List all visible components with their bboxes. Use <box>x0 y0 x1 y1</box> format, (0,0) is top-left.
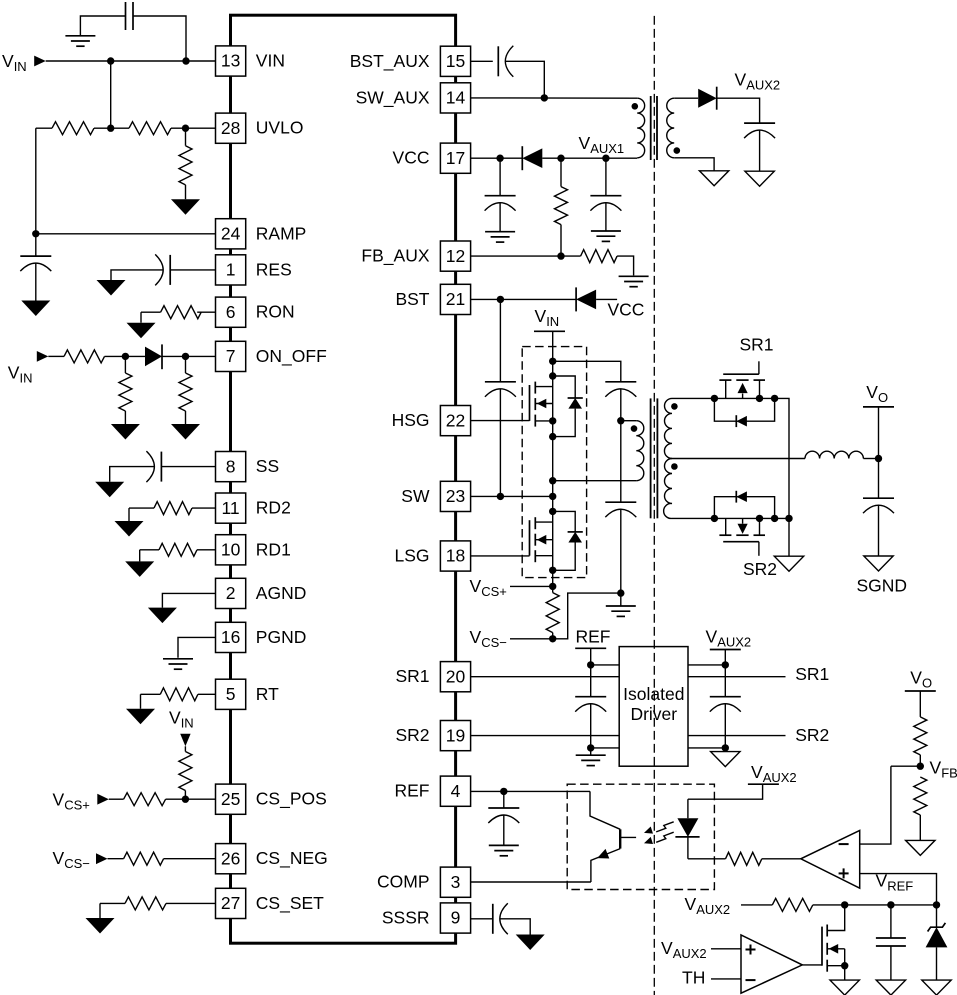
node dot VCS+ tap <box>549 583 556 590</box>
pin 8 SS <box>216 452 246 482</box>
Q3 source stub <box>827 965 845 967</box>
wire C-SS to ground elbow <box>110 467 155 482</box>
pin 24 RAMP <box>216 219 246 249</box>
wire diode to cap VAUX2 <box>717 98 760 123</box>
wire RD1 elbow <box>140 549 159 551</box>
wire R-UVLO3 to ground <box>185 185 187 199</box>
node dot sec-top-C <box>771 395 778 402</box>
Q2 body arrow stub <box>535 539 552 541</box>
polarity dot T1 secondary lower <box>671 463 678 470</box>
VAUX2 supply bar (opto) <box>748 783 779 785</box>
aux transformer T2 core <box>650 96 652 160</box>
SR2 body arrow stub <box>742 518 744 523</box>
svg-text:VAUX2: VAUX2 <box>751 762 797 785</box>
dashed box - optocoupler U3 <box>567 784 714 889</box>
wire secondary top rail <box>672 398 789 518</box>
SR1 gate bar <box>723 373 759 375</box>
ground triangle (open) secondary <box>774 556 803 571</box>
node dot VREF-C <box>933 901 940 908</box>
ground triangle (open) T2 return <box>699 171 728 186</box>
wire Q2 diode bottom to source <box>553 543 576 571</box>
resistor R-T <box>160 688 198 701</box>
svg-text:SGND: SGND <box>857 575 908 595</box>
capacitor C-REF <box>488 807 519 809</box>
ground triangle RAMP <box>21 301 50 317</box>
pin 6 RON <box>216 297 246 327</box>
opto transistor base stub <box>620 836 636 838</box>
node dot Q1 source-diode <box>549 433 556 440</box>
U4 plus sign <box>839 872 849 874</box>
node dot Q1 source <box>549 417 556 424</box>
pin 7 ON_OFF <box>216 341 246 371</box>
input arrow ON_OFF <box>37 351 49 362</box>
svg-text:VAUX1: VAUX1 <box>579 133 625 156</box>
node dot VREF-B <box>887 901 894 908</box>
svg-text:RAMP: RAMP <box>256 223 307 243</box>
svg-text:2: 2 <box>226 583 236 603</box>
wire to pin 26 <box>164 858 216 860</box>
svg-text:SR1: SR1 <box>395 666 429 686</box>
wire left rail UVLO to RAMP <box>35 128 37 234</box>
svg-text:5: 5 <box>226 684 236 704</box>
svg-text:BST_AUX: BST_AUX <box>350 51 430 72</box>
wire RD1 down <box>139 550 141 562</box>
opto emitter arrow <box>597 849 609 859</box>
node dot VCS- tap <box>549 635 556 642</box>
ground triangle SS <box>95 482 124 498</box>
inductor L1 output <box>805 451 863 458</box>
pin 3 COMP <box>440 867 470 897</box>
node dot VIN-A <box>107 57 114 64</box>
pin 1 RES <box>216 255 246 285</box>
pin 13 VIN <box>216 46 246 76</box>
wire driver SR2 output <box>688 735 786 737</box>
wire bridge VIN to HSG cap <box>553 361 621 382</box>
node dot Q2 source-diode <box>549 567 556 574</box>
pin 20 SR1 <box>440 662 470 692</box>
node dot SW_AUX <box>541 94 548 101</box>
ground (earth) FB_AUX <box>619 275 649 277</box>
wire gnd node to driver right <box>688 747 725 749</box>
wire resistor to CS_POS node <box>184 791 186 800</box>
pin 27 CS_SET <box>216 888 246 918</box>
wire secondary bottom rail <box>672 517 789 519</box>
capacitor C-RAMP <box>20 255 51 257</box>
ground (earth) C-VCC <box>485 231 515 233</box>
wire pin 12 FB_AUX <box>471 255 581 257</box>
wire center tap to inductor <box>672 458 805 460</box>
wire HSG pin 22 to Q1 gate <box>471 420 530 422</box>
wire VO bar down <box>878 407 880 459</box>
resistor R-FB-TOP <box>914 717 927 755</box>
wire cap to ground <box>80 16 125 36</box>
polarity dot T2 secondary <box>674 147 681 154</box>
wire RD2 elbow <box>129 507 154 509</box>
capacitor C-VAUX1 <box>590 195 621 197</box>
svg-text:20: 20 <box>446 666 466 686</box>
wire RT down <box>140 694 142 708</box>
resistor R-VREF <box>772 898 813 911</box>
transformer T1 secondary upper winding <box>664 398 672 458</box>
U5 minus sign <box>746 979 756 981</box>
ground triangle (open) Q3 <box>830 980 859 995</box>
node dot VFB <box>917 763 924 770</box>
wire opto emitter to pin 3 COMP <box>471 881 591 883</box>
wire resistor to ground <box>919 815 921 840</box>
wire VAUX2 to U5 plus <box>711 948 741 950</box>
pin 21 BST <box>440 284 470 314</box>
node dot REF <box>500 788 507 795</box>
node dot sec-bot-C <box>771 515 778 522</box>
svg-text:VO: VO <box>866 382 888 405</box>
opto light arrow 1 <box>656 822 674 832</box>
svg-text:BST: BST <box>395 289 429 309</box>
SR1 channel <box>719 379 731 381</box>
wire gnd node to earth <box>590 748 592 755</box>
svg-text:COMP: COMP <box>377 872 430 892</box>
svg-text:AGND: AGND <box>256 583 307 603</box>
svg-text:22: 22 <box>446 410 465 430</box>
svg-text:VIN: VIN <box>256 51 285 71</box>
transistor SR1 gate lead <box>758 361 760 374</box>
svg-text:LSG: LSG <box>394 546 429 566</box>
U5 plus sign <box>746 949 756 951</box>
wire diode to pin 7 <box>162 355 216 357</box>
svg-text:SR2: SR2 <box>795 725 829 745</box>
node dot VCC-B <box>557 155 564 162</box>
svg-text:7: 7 <box>226 346 236 366</box>
wire zener to ground <box>936 947 938 980</box>
resistor R-FBAUX-TOP <box>555 187 568 225</box>
wire RON down <box>140 312 142 323</box>
VIN supply arrow down <box>180 734 190 747</box>
resistor R-ON <box>161 306 202 319</box>
svg-text:VCS−: VCS− <box>470 627 507 650</box>
wire primary node down (crossover) <box>620 421 622 503</box>
wire pin 21 BST <box>471 298 576 300</box>
opto LED <box>677 818 698 837</box>
transistor Q2 low-side FET gate bar <box>529 520 531 556</box>
opto light arrow 2 <box>656 832 674 842</box>
wire arrow to resistor <box>108 858 124 860</box>
wire C-HSG to primary node <box>620 389 622 421</box>
svg-text:28: 28 <box>221 118 240 138</box>
wire VCS- node to primary ground <box>553 593 621 639</box>
capacitor C-BSTAUX <box>497 46 499 76</box>
wire VREF-C to zener <box>936 905 938 927</box>
VO supply bar <box>863 406 894 408</box>
ground triangle (open) zener <box>922 980 951 995</box>
pin 18 LSG <box>440 541 470 571</box>
svg-text:REF: REF <box>576 626 611 646</box>
wire resistor to FB_AUX node <box>560 225 562 257</box>
svg-text:VAUX2: VAUX2 <box>661 938 707 961</box>
wire driver SR1 output <box>688 676 786 678</box>
node dot sec-bot-A <box>711 515 718 522</box>
SR1 body diode <box>735 415 737 427</box>
wire LED to resistor <box>688 858 726 860</box>
ground triangle UVLO <box>171 199 200 215</box>
svg-text:8: 8 <box>226 456 236 476</box>
resistor R-SENSE <box>546 593 559 633</box>
wire Q1 diode bottom to source <box>553 409 576 437</box>
pin 19 SR2 <box>440 721 470 751</box>
node dot UVLO-B <box>182 125 189 132</box>
wire arrow to resistor <box>184 746 186 751</box>
ground triangle AGND <box>148 608 177 624</box>
wire VAUX2 node down to cap <box>724 665 726 697</box>
svg-text:CS_POS: CS_POS <box>256 789 327 810</box>
wire to pin 25 <box>166 798 216 800</box>
aux transformer T2 primary winding <box>637 98 644 158</box>
wire cap to gnd node <box>590 704 592 748</box>
node dot low FET drain <box>549 508 556 515</box>
pin 23 SW <box>440 481 470 511</box>
wire CS_SET down <box>99 903 101 918</box>
opto LED anode wire <box>687 799 689 818</box>
wire resistor to node <box>105 355 146 357</box>
wire SW pin 23 <box>471 495 553 497</box>
wire diode to VAUX1 rail <box>542 157 637 159</box>
wire pin 19 SR2 to driver <box>471 735 620 737</box>
wire CS_SET elbow <box>100 902 125 904</box>
svg-text:VIN: VIN <box>535 306 560 329</box>
wire ONOFF-B down <box>185 356 187 373</box>
svg-text:27: 27 <box>221 893 240 913</box>
wire RT elbow <box>141 693 161 695</box>
wire VAUX2 bar to node <box>724 650 726 665</box>
pin 2 AGND <box>216 578 246 608</box>
polarity dot T1 primary <box>631 425 638 432</box>
VIN supply bar (bridge) <box>534 330 565 332</box>
svg-text:24: 24 <box>221 224 241 244</box>
Q1 source stub <box>535 420 552 422</box>
svg-text:VCC: VCC <box>608 299 645 319</box>
wire bridge center 361-421 <box>552 361 554 421</box>
wire R-T to pin 5 <box>198 693 216 695</box>
op-amp U4 error amplifier <box>801 830 860 888</box>
transistor Q2 channel <box>534 517 536 529</box>
wire VREF-A to FET drain <box>827 905 845 931</box>
svg-text:RES: RES <box>256 259 292 279</box>
svg-text:PGND: PGND <box>256 627 307 647</box>
diode D-ONOFF <box>145 347 162 367</box>
capacitor C-PRI (primary bottom) <box>605 501 636 503</box>
Q2 drain stub <box>535 521 552 523</box>
polarity dot T1 secondary upper <box>671 403 678 410</box>
resistor R-CSSET <box>125 897 166 910</box>
op-amp U5 thermal comparator <box>741 935 802 993</box>
ground triangle ONOFF-2 <box>171 424 200 440</box>
svg-text:SR2: SR2 <box>395 725 429 745</box>
svg-text:16: 16 <box>221 627 240 647</box>
VO supply bar (divider) <box>905 690 936 692</box>
ground triangle (open) SGND <box>864 556 893 571</box>
resistor R-ONOFF-GND1 <box>119 373 132 411</box>
IC U1 body outline <box>231 15 456 943</box>
wire PGND to pin 16 <box>178 637 216 657</box>
resistor R-ONOFF <box>64 350 105 363</box>
svg-text:CS_SET: CS_SET <box>256 893 324 914</box>
svg-text:VIN: VIN <box>169 708 194 731</box>
node dot sec-bot-D <box>785 515 792 522</box>
SR1 source stub <box>725 380 727 398</box>
node dot ONOFF-A <box>122 353 129 360</box>
Q3 arrow-source link <box>844 949 846 966</box>
svg-text:VAUX2: VAUX2 <box>735 70 781 93</box>
node dot VCC-A <box>496 155 503 162</box>
wire U5 output to Q3 gate <box>802 964 822 966</box>
transistor SR2 gate lead <box>758 542 760 556</box>
Q2 body diode <box>568 531 583 533</box>
svg-text:15: 15 <box>446 51 465 71</box>
wire C-VAUX1 to ground <box>605 203 607 231</box>
node dot primary top <box>617 417 624 424</box>
node dot VO <box>875 455 882 462</box>
svg-text:13: 13 <box>221 51 240 71</box>
wire to ground 2 <box>185 411 187 424</box>
VIN input arrow <box>34 56 46 67</box>
wire resistor to ground elbow <box>617 256 634 275</box>
wire C-VAUX2 to ground <box>759 130 761 171</box>
capacitor C-VREF <box>876 937 906 939</box>
SR2 gate bar <box>723 541 759 543</box>
svg-text:VCC: VCC <box>393 148 430 168</box>
wire T2 secondary bottom to ground <box>674 158 714 171</box>
dashed box - FET bridge module <box>522 347 586 578</box>
svg-text:ON_OFF: ON_OFF <box>256 346 327 367</box>
Q2 source stub <box>535 555 552 557</box>
wire sense resistor bottom <box>552 633 554 639</box>
svg-text:25: 25 <box>221 789 240 809</box>
node dot FB_AUX <box>557 252 564 259</box>
transistor Q1 channel <box>534 382 536 394</box>
node dot SW <box>549 493 556 500</box>
svg-text:RT: RT <box>256 684 279 704</box>
SR2 source stub <box>725 518 727 535</box>
node dot SW-primary <box>549 477 556 484</box>
node dot VIN-B <box>182 57 189 64</box>
svg-text:RON: RON <box>256 302 295 322</box>
wire AGND to pin 2 <box>162 593 215 607</box>
wire drain to body diode top <box>553 376 576 398</box>
svg-text:19: 19 <box>446 725 465 745</box>
svg-text:23: 23 <box>446 486 465 506</box>
wire pin 14 to aux transformer primary <box>471 97 638 99</box>
resistor R-CSPOS <box>124 793 166 806</box>
node dot driver GND-R <box>722 744 729 751</box>
wire ONOFF-A down <box>124 356 126 373</box>
polarity dot T2 primary <box>632 103 639 110</box>
SR2 channel <box>719 534 731 536</box>
node dot ONOFF-B <box>182 353 189 360</box>
node dot RAMP <box>32 230 39 237</box>
opto transistor body bar <box>619 829 621 848</box>
svg-text:RD2: RD2 <box>256 498 291 518</box>
node dot sec-top-A <box>711 395 718 402</box>
wire RD2 down <box>128 508 130 521</box>
isolation boundary dashed line <box>653 16 655 995</box>
transformer T1 secondary lower winding <box>664 459 672 519</box>
resistor R-COMP <box>726 852 762 865</box>
node dot SW-cap <box>497 493 504 500</box>
svg-text:FB_AUX: FB_AUX <box>361 246 429 267</box>
wire TH to U5 minus <box>711 978 741 980</box>
wire VO bar to divider <box>919 691 921 717</box>
wire LSG pin 18 to Q2 gate <box>471 555 530 557</box>
pin 9 SSSR <box>440 903 470 933</box>
wire pin 9 to C-SSSR <box>471 918 493 920</box>
node dot UVLO-A <box>107 125 114 132</box>
node dot BST <box>497 296 504 303</box>
node dot VAUX1 <box>602 155 609 162</box>
wire pin 17 VCC rail <box>471 157 523 159</box>
wire node to driver right <box>688 664 725 666</box>
capacitor C-SS <box>160 452 162 482</box>
pin 22 HSG <box>440 406 470 436</box>
svg-text:VAUX2: VAUX2 <box>706 627 752 650</box>
opto transistor emitter <box>591 849 620 882</box>
wire to pin 27 <box>166 902 216 904</box>
wire VO node to output cap <box>878 459 880 499</box>
svg-text:UVLO: UVLO <box>256 118 304 138</box>
wire arrow to resistor <box>109 798 124 800</box>
wire U4 minus input to VFB <box>860 766 891 844</box>
resistor R-CS (VIN to CS_POS) <box>179 752 192 791</box>
Isolated Driver box U2 <box>619 647 688 767</box>
wire R-UVLO2 to pin 28 <box>171 127 216 129</box>
resistor R-D1 <box>159 543 197 556</box>
ground triangle CS_SET <box>86 918 115 934</box>
pin 4 REF <box>440 776 470 806</box>
wire RAMP node down to cap <box>35 234 37 256</box>
wire pin 20 SR1 to driver <box>471 676 620 678</box>
wire inductor to VO node <box>863 458 878 460</box>
wire VCS+ label to node <box>510 585 553 587</box>
svg-text:VCS+: VCS+ <box>53 789 90 812</box>
wire resistor to VFB node <box>919 755 921 766</box>
input arrow VCS+ <box>97 794 109 805</box>
node dot VREF-A <box>841 901 848 908</box>
node dot bridge VIN <box>549 358 556 365</box>
svg-text:11: 11 <box>222 498 240 518</box>
pin 5 RT <box>216 679 246 709</box>
capacitor C-VAUX2 <box>744 122 775 124</box>
wire resistor to VREF rail <box>813 904 937 906</box>
ground triangle (open) VAUX2 <box>745 171 774 186</box>
Q1 drain stub <box>535 386 552 388</box>
capacitor C-DRV-L <box>575 696 606 698</box>
wire R-D2 to pin 11 <box>192 507 216 509</box>
resistor R-FBAUX-BOT <box>581 250 617 263</box>
wire REF bar to node <box>590 648 592 665</box>
wire SW node to transformer primary bottom <box>553 480 637 482</box>
pin 12 FB_AUX <box>440 241 470 271</box>
wire LED cathode down <box>687 837 689 859</box>
wire RON elbow <box>141 311 161 313</box>
wire REF node down to cap <box>590 665 592 697</box>
capacitor C-BST (bootstrap) <box>485 381 516 383</box>
node dot driver REF <box>587 661 594 668</box>
ground triangle SSSR <box>516 935 545 951</box>
wire VIN to pin 13 <box>46 60 216 62</box>
svg-text:CS_NEG: CS_NEG <box>256 848 328 869</box>
svg-text:26: 26 <box>221 848 240 868</box>
resistor R-ONOFF-GND2 <box>179 373 192 411</box>
svg-text:21: 21 <box>446 289 465 309</box>
node dot Q3 source <box>841 962 848 969</box>
transformer T1 core <box>650 398 652 518</box>
